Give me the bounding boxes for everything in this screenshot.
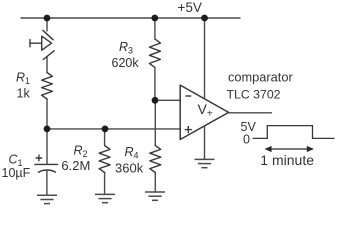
- capacitor C1 top plate: [35, 163, 58, 165]
- svg-text:1k: 1k: [17, 87, 31, 101]
- op-amp U1 TLC3702 comparator triangle: [180, 85, 228, 139]
- wire R4 to ground: [154, 173, 156, 193]
- wire C1 to ground: [46, 171, 48, 195]
- ground under R4: [145, 192, 165, 200]
- junction node B R2 tap: [102, 125, 109, 132]
- wire R2 top lead: [104, 129, 106, 146]
- svg-text:0: 0: [243, 132, 250, 146]
- junction dot rail-R3: [151, 15, 158, 22]
- junction node B R1-C1: [44, 125, 51, 132]
- ground under C1: [37, 195, 57, 203]
- wire node B horizontal to + input: [47, 128, 180, 130]
- wire node A to R4: [154, 100, 156, 145]
- svg-text:360k: 360k: [115, 161, 144, 176]
- wire +5V rail: [21, 17, 240, 19]
- capacitor C1 curved plate: [38, 170, 55, 172]
- wire photodiode branch top: [46, 18, 48, 31]
- svg-text:620k: 620k: [112, 56, 140, 70]
- wire comparator output: [229, 112, 272, 114]
- svg-text:10µF: 10µF: [2, 166, 31, 180]
- resistor R3: [149, 39, 160, 68]
- svg-text:R2: R2: [74, 143, 88, 159]
- photodiode D1 triangle: [42, 36, 52, 50]
- junction dot rail-supply: [201, 15, 208, 22]
- svg-text:6.2M: 6.2M: [61, 158, 90, 173]
- wire R3 top lead: [154, 18, 156, 39]
- svg-text:1 minute: 1 minute: [260, 152, 314, 168]
- wire R2 to ground: [104, 173, 106, 195]
- wire R3 to node A: [154, 68, 156, 101]
- photodiode D1 anode slash: [43, 51, 54, 60]
- svg-text:R3: R3: [119, 40, 133, 56]
- wire photodiode to R1: [46, 57, 48, 73]
- junction dot rail-photodiode: [44, 15, 51, 22]
- resistor R2: [99, 146, 110, 173]
- svg-text:comparator: comparator: [228, 70, 293, 85]
- resistor R4: [150, 146, 161, 173]
- svg-text:TLC 3702: TLC 3702: [227, 87, 281, 101]
- svg-text:R4: R4: [125, 145, 139, 161]
- svg-text:+5V: +5V: [178, 0, 202, 15]
- ground under comparator: [195, 159, 215, 167]
- photodiode D1 light arrow: [30, 42, 41, 44]
- resistor R1: [42, 73, 53, 100]
- waveform output pulse: [253, 126, 335, 139]
- wire node A to inverting input: [155, 99, 180, 101]
- svg-text:R1: R1: [16, 71, 30, 87]
- capacitor C1 plus sign: [36, 157, 42, 159]
- ground under R2: [95, 194, 115, 202]
- op-amp U1 inverting input minus sign: [186, 95, 192, 97]
- wire V+ supply: [204, 18, 206, 100]
- op-amp U1 noninverting input plus sign: [185, 126, 192, 133]
- junction node A R3-R4-inverting: [152, 97, 159, 104]
- wire node B to C1: [46, 129, 48, 164]
- waveform 1 minute arrow: [264, 146, 314, 152]
- wire V- to ground: [204, 125, 206, 160]
- photodiode D1 cathode slash: [43, 30, 53, 40]
- wire R1 to node B: [46, 99, 48, 129]
